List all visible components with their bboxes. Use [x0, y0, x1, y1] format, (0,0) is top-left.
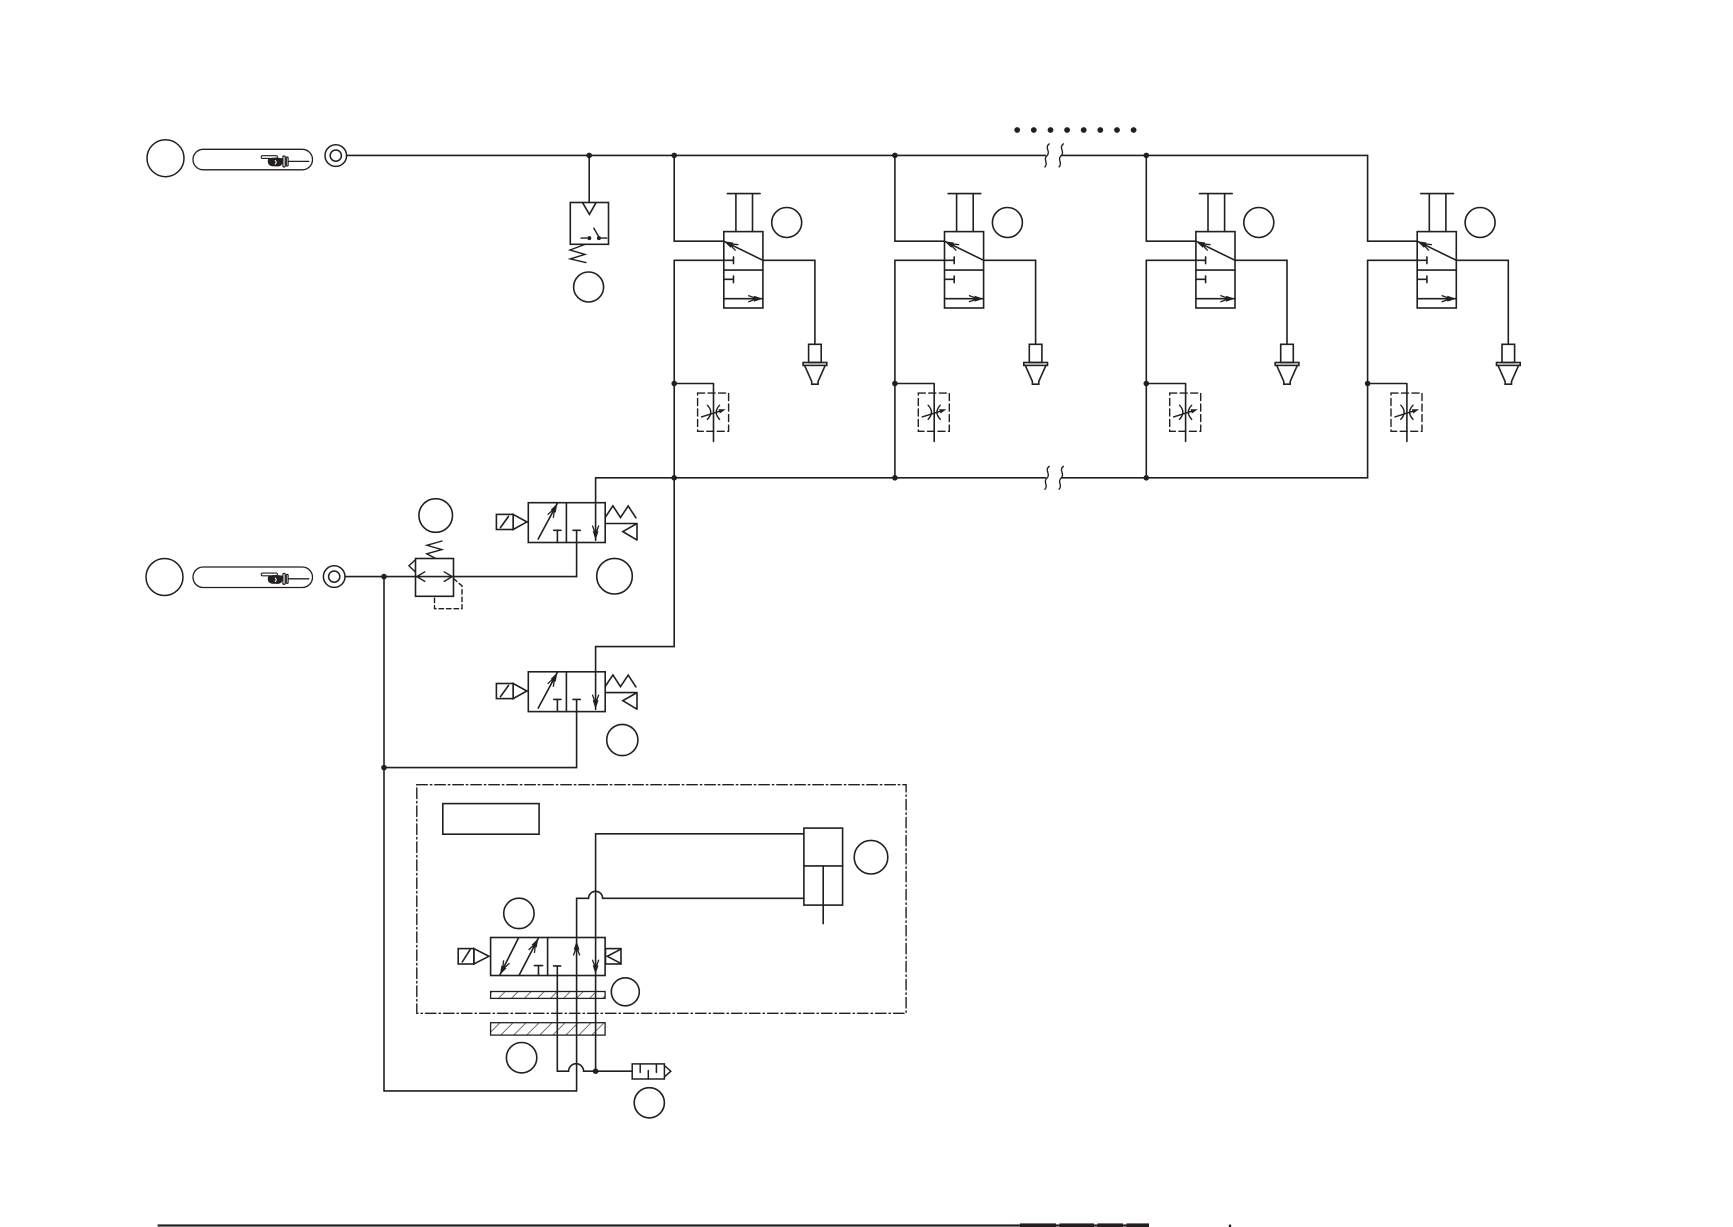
label circle above regulator: [419, 499, 453, 533]
unit enclosure dash-dot box: [417, 785, 906, 1014]
continuation dots row: [1014, 127, 1136, 133]
junction dots group 3: [1144, 153, 1150, 159]
mounting plate 2 (hatched): [491, 1023, 605, 1035]
wire: riser to SV2 inlet: [596, 478, 675, 672]
regulator feedback dashed line: [435, 579, 463, 609]
wire break marks on lower bus: [1045, 466, 1064, 489]
node: pilot port label circle: [146, 559, 183, 596]
port: supply connection double circle: [325, 145, 347, 167]
label circle right of SV1: [597, 558, 633, 594]
junction on top bus at pressure switch: [586, 153, 592, 159]
junction dots group 1: [671, 153, 677, 159]
label circle right of cylinder: [854, 840, 888, 874]
MV blocked port stubs: [534, 966, 542, 976]
wire: top supply bus: [347, 154, 1368, 156]
wire: exhaust collector with crossover hop: [557, 1064, 632, 1072]
wire: left pilot riser: [383, 577, 385, 1091]
cylinder CYL body: [577, 834, 804, 899]
wire: bus to SV1 inlet: [595, 478, 597, 503]
label circle right of plate 1: [611, 978, 639, 1006]
label circle below pressure switch: [574, 272, 604, 302]
wire: lower pilot bus: [596, 477, 1368, 479]
label circle right of SV2: [607, 724, 638, 755]
junction dots group 2: [892, 153, 898, 159]
nameplate rectangle: [443, 804, 539, 835]
wire: pilot supply line: [345, 576, 577, 578]
junction on left riser: [381, 765, 387, 771]
label circle below filter: [634, 1088, 664, 1118]
footer tick mark: [1229, 1225, 1231, 1227]
junction on exhaust line: [593, 1068, 599, 1074]
valve group 3: [1144, 155, 1299, 477]
regulator relief chevron: [409, 560, 416, 572]
main 4-port valve MV: [458, 938, 621, 976]
hand pointer icon (top pill): [261, 156, 309, 167]
exhaust filter/silencer: [632, 1064, 671, 1079]
wire: supply feed bottom run: [384, 1090, 577, 1092]
solenoid valve SV2: [496, 672, 637, 712]
valve group 4: [1365, 155, 1520, 477]
valve group 2: [892, 155, 1047, 477]
pilot reference pill: [193, 567, 313, 588]
port: pilot connection double circle: [323, 566, 345, 588]
wire: MV exhaust port line: [556, 976, 558, 1072]
MV body: [491, 938, 605, 976]
solenoid valve SV1: [496, 503, 637, 543]
regulator REG: [409, 541, 462, 609]
valve group 1 (plunger valve + nozzle + speed controller): [671, 155, 826, 477]
page footer rule: [158, 1224, 1149, 1226]
hand pointer icon (mid pill): [261, 573, 309, 584]
regulator body: [416, 559, 454, 597]
supply reference pill: [193, 149, 313, 170]
MV pilot return actuator: [606, 949, 622, 964]
mounting plate 1 (hatched): [491, 992, 605, 999]
MV supply up arrow: [574, 941, 580, 950]
wire break marks on top bus: [1045, 144, 1064, 167]
wire: SV2 bottom port to left riser: [384, 712, 577, 768]
pressure switch PS: [570, 203, 609, 263]
regulator flow arrowheads: [417, 572, 452, 582]
wire: pressure switch branch: [588, 155, 590, 202]
MV exhaust down arrow: [593, 965, 599, 974]
node: supply port label circle: [147, 140, 184, 177]
wire: cylinder port A line: [595, 834, 597, 1071]
wire: cylinder port B / supply line: [576, 898, 578, 1091]
MV solenoid actuator: [458, 949, 474, 964]
junction on pilot line: [381, 574, 387, 580]
regulator adjusting spring: [427, 541, 442, 558]
label circle below plate 2: [506, 1043, 536, 1073]
label circle above MV: [504, 898, 534, 928]
cylinder end block and rod: [804, 828, 843, 924]
wire: SV1 bottom port: [576, 543, 578, 577]
MV flow arrows (left square): [500, 938, 519, 975]
footer micro text block: [1020, 1223, 1149, 1227]
